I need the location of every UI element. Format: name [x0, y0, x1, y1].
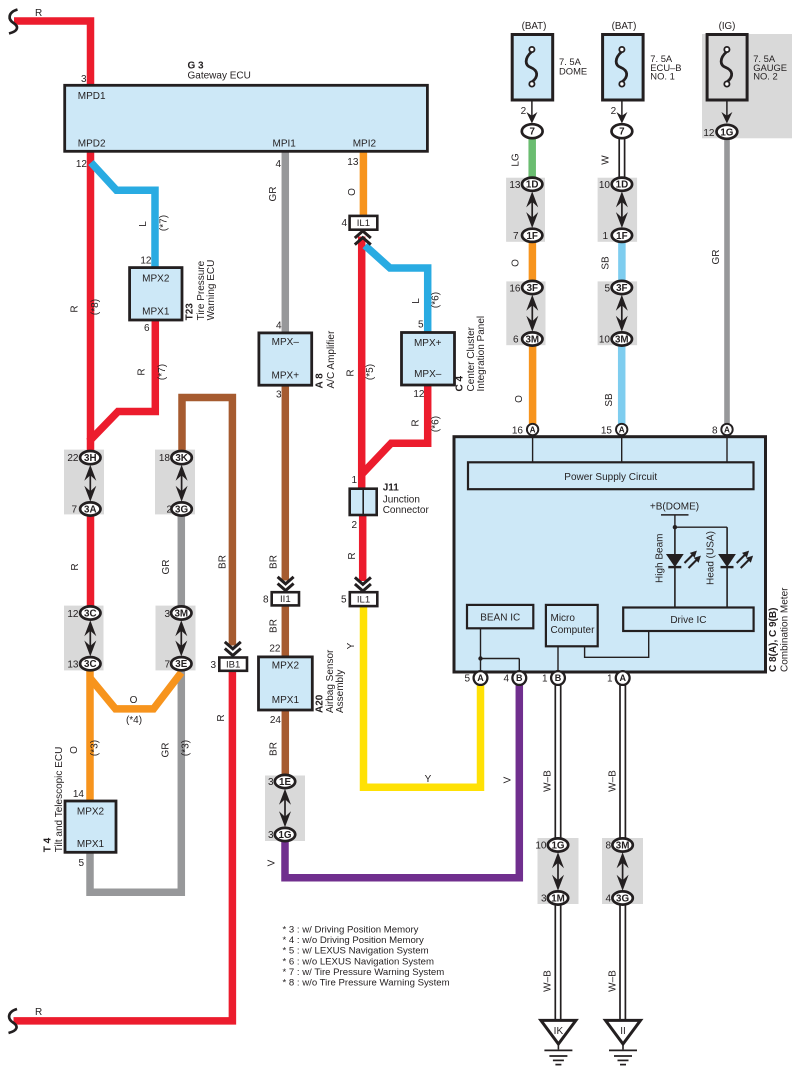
connector block shade 3K/3G	[155, 450, 195, 515]
svg-text:BR: BR	[269, 742, 280, 756]
svg-text:1F: 1F	[616, 231, 627, 242]
wire W-B from connector 3G to ground II	[619, 904, 621, 1021]
wire O (*4) branch between 3C line and 3E	[90, 673, 181, 709]
connector block shade 3M/3E	[156, 606, 196, 671]
Micro Computer block	[546, 605, 598, 646]
connector IB1 pin 3 with chevrons	[225, 642, 241, 656]
svg-text:SB: SB	[604, 393, 615, 407]
svg-text:BR: BR	[269, 555, 280, 569]
meter pin B4	[512, 671, 526, 685]
wire R from J11 pin 2 to IL1 connector	[359, 514, 367, 581]
fuse GAUGE lead, pin 12 and connector 1G	[726, 100, 728, 120]
wire BR from Airbag Sensor MPX1 pin 24 to connector 1E	[282, 710, 290, 783]
svg-text:BR: BR	[269, 619, 280, 633]
svg-text:8: 8	[605, 841, 611, 852]
svg-text:Drive IC: Drive IC	[670, 615, 706, 626]
meter pin A5	[474, 671, 488, 685]
Tilt and Telescopic ECU T4 box	[65, 801, 116, 852]
svg-text:W–B: W–B	[608, 970, 619, 992]
svg-text:1D: 1D	[526, 180, 539, 191]
svg-text:3: 3	[268, 777, 274, 788]
svg-text:A: A	[619, 426, 625, 435]
wire GR between 3G and 3M	[178, 508, 186, 614]
Drive IC block	[623, 608, 753, 632]
svg-text:(*3): (*3)	[90, 740, 101, 756]
svg-text:T23: T23	[185, 303, 196, 321]
meter pin B1	[551, 671, 565, 685]
wire V from connector 1G to Combination Meter pin B4	[285, 684, 519, 878]
svg-text:3M: 3M	[616, 841, 630, 852]
svg-text:7: 7	[164, 660, 170, 671]
meter internal lead from A15	[621, 438, 623, 462]
svg-text:13: 13	[509, 180, 521, 191]
svg-text:1: 1	[351, 475, 357, 486]
svg-text:SB: SB	[601, 256, 612, 270]
connector block shade 3M/3G	[602, 838, 643, 904]
svg-text:3M: 3M	[615, 335, 629, 346]
ground II	[606, 1020, 641, 1064]
svg-text:GR: GR	[161, 743, 172, 758]
wire W-B from meter pin A1 to connector 3M	[619, 684, 621, 839]
wire O from 3M to Combination Meter pin A16	[529, 338, 537, 425]
svg-text:Integration Panel: Integration Panel	[476, 316, 487, 392]
Tire Pressure Warning ECU T23 box	[130, 268, 182, 320]
meter pin A15	[616, 424, 627, 435]
svg-text:(*5): (*5)	[365, 364, 376, 380]
svg-text:MPD1: MPD1	[78, 91, 106, 102]
wire GR from MPI1 to A/C Amplifier MPX-	[282, 151, 290, 334]
wire break squiggle bottom left	[9, 1009, 18, 1033]
svg-text:Y: Y	[425, 774, 432, 785]
svg-text:3C: 3C	[84, 659, 97, 670]
svg-text:2: 2	[351, 520, 357, 531]
svg-text:5: 5	[418, 320, 424, 331]
svg-text:5: 5	[604, 284, 610, 295]
wire GR from fuse GAUGE connector 1G to Combination Meter pin A8	[724, 137, 730, 425]
svg-text:Warning ECU: Warning ECU	[206, 260, 217, 321]
connector pair 3M(3)/3E(7)	[175, 620, 187, 656]
svg-text:1E: 1E	[279, 777, 291, 788]
svg-text:2: 2	[611, 106, 617, 117]
Junction Connector J11	[350, 489, 377, 515]
svg-text:II1: II1	[280, 594, 291, 605]
svg-text:A: A	[724, 426, 730, 435]
connector IL1 pin 4 with chevrons	[350, 216, 378, 230]
svg-text:O: O	[69, 746, 80, 754]
wire W from fuse ECU-B connector 7 to 1D	[618, 137, 620, 185]
connector block shade 3F/3M (DOME circuit)	[506, 281, 545, 345]
wire LG from fuse DOME connector 7 to 1D	[528, 136, 536, 185]
wire R (*7) from T23 MPX1 merging into main R	[89, 319, 155, 442]
wire R from IB1 down and across to connector break at bottom left	[14, 670, 233, 1021]
connector block shade 1G/1M	[538, 838, 579, 904]
A/C Amplifier A8 box	[259, 333, 312, 385]
svg-text:* 8 : w/o Tire Pressure Warnin: * 8 : w/o Tire Pressure Warning System	[283, 978, 450, 989]
Combination Meter box C8(A) C9(B)	[454, 437, 766, 672]
wire GR (*3) from 3E down to Tilt and Telescopic ECU MPX1	[90, 664, 181, 892]
svg-text:R: R	[346, 369, 357, 376]
wire break squiggle top left	[9, 10, 18, 34]
svg-text:Tilt and Telescopic ECU: Tilt and Telescopic ECU	[54, 747, 65, 853]
svg-text:C 4: C 4	[455, 376, 466, 392]
svg-text:O: O	[511, 259, 522, 267]
connector pair 1D(13)/1F(7) DOME	[526, 191, 538, 228]
connector pair 1D(10)/1F(1) ECU-B	[616, 191, 628, 228]
svg-text:R: R	[35, 1007, 42, 1018]
Micro Computer lead to pin B1	[557, 646, 559, 671]
meter pin A8	[721, 424, 732, 435]
svg-text:3: 3	[210, 660, 216, 671]
svg-text:14: 14	[73, 789, 85, 800]
svg-text:R: R	[216, 714, 227, 721]
svg-text:8: 8	[712, 426, 718, 437]
svg-text:(*7): (*7)	[159, 215, 170, 231]
svg-text:(*4): (*4)	[126, 715, 142, 726]
svg-text:4: 4	[276, 321, 282, 332]
svg-text:MPX1: MPX1	[272, 695, 300, 706]
svg-text:II: II	[620, 1026, 626, 1037]
svg-text:A 8: A 8	[315, 373, 326, 389]
svg-text:A/C Amplifier: A/C Amplifier	[326, 330, 337, 388]
svg-text:4: 4	[503, 674, 509, 685]
svg-text:Gateway ECU: Gateway ECU	[188, 71, 251, 82]
meter internal lead from A16	[532, 438, 534, 462]
svg-text:12: 12	[703, 128, 715, 139]
connector pair 3F(16)/3M(6) DOME	[526, 295, 538, 332]
svg-text:7: 7	[71, 505, 77, 516]
svg-text:3F: 3F	[527, 283, 538, 294]
svg-text:Combination Meter: Combination Meter	[779, 587, 790, 672]
svg-text:3F: 3F	[616, 283, 627, 294]
ground IK	[541, 1020, 576, 1064]
svg-text:Assembly: Assembly	[335, 670, 346, 713]
connector pair 1G(10)/1M(3)	[552, 852, 564, 891]
svg-text:5: 5	[464, 674, 470, 685]
svg-text:NO. 2: NO. 2	[753, 71, 778, 82]
Head (USA) LED	[726, 527, 728, 554]
svg-text:* 5 : w/ LEXUS Navigation Syst: * 5 : w/ LEXUS Navigation System	[283, 946, 429, 957]
svg-text:MPX2: MPX2	[142, 273, 170, 284]
fuse 7.5A GAUGE NO.2	[707, 35, 747, 101]
connector pair 3F(5)/3M(10) ECU-B	[616, 295, 628, 332]
svg-text:1G: 1G	[551, 841, 564, 852]
Power Supply Circuit block	[468, 462, 754, 489]
svg-text:(*8): (*8)	[90, 299, 101, 315]
svg-text:A: A	[530, 426, 536, 435]
svg-text:O: O	[514, 395, 525, 403]
connector block shade 3H/3A	[64, 450, 104, 515]
connector IL1 pin 5 with chevrons	[355, 577, 371, 591]
svg-text:3G: 3G	[616, 894, 629, 905]
wire L (*6) branch to Center Cluster Integration Panel MPX+	[365, 246, 428, 334]
svg-text:R: R	[411, 419, 422, 426]
shaded option panel around GAUGE NO.2 fuse	[702, 34, 792, 138]
svg-text:+B(DOME): +B(DOME)	[650, 502, 699, 513]
svg-text:MPI2: MPI2	[353, 139, 377, 150]
svg-text:22: 22	[67, 453, 79, 464]
svg-text:High Beam: High Beam	[655, 534, 666, 583]
wire SB from 3M to Combination Meter pin A15	[618, 338, 626, 425]
svg-text:J11: J11	[383, 483, 400, 494]
svg-text:MPI1: MPI1	[273, 139, 297, 150]
svg-text:(*3): (*3)	[181, 740, 192, 756]
svg-text:3: 3	[541, 894, 547, 905]
wire L (*7) branch to Tire Pressure Warning ECU	[91, 163, 155, 269]
svg-text:3A: 3A	[84, 505, 97, 516]
svg-text:10: 10	[535, 841, 547, 852]
svg-text:Connector: Connector	[383, 505, 430, 516]
svg-text:R: R	[70, 563, 81, 570]
meter pin A1	[616, 671, 630, 685]
svg-text:MPX+: MPX+	[272, 370, 300, 381]
svg-text:Y: Y	[346, 642, 357, 649]
wire W-B from meter pin B1 to connector 1G	[554, 684, 556, 839]
svg-text:IL1: IL1	[357, 218, 370, 229]
fuse ECU-B lead, pin 2 and connector 7	[621, 100, 623, 120]
svg-text:3M: 3M	[174, 609, 188, 620]
svg-text:O: O	[347, 188, 358, 196]
wire Y from IL1 to Combination Meter pin A5	[364, 605, 481, 787]
svg-text:3H: 3H	[84, 453, 97, 464]
svg-text:1F: 1F	[526, 231, 537, 242]
svg-text:2: 2	[521, 106, 527, 117]
svg-text:1G: 1G	[720, 127, 733, 138]
svg-text:10: 10	[599, 180, 611, 191]
connector block shade 1D/1F (DOME circuit)	[506, 178, 545, 242]
svg-text:GR: GR	[268, 187, 279, 202]
svg-text:IL1: IL1	[357, 594, 370, 605]
connector block shade 1E/1G	[265, 776, 305, 842]
svg-text:4: 4	[605, 894, 611, 905]
svg-text:12: 12	[67, 609, 79, 620]
svg-text:* 3 : w/ Driving Position Memo: * 3 : w/ Driving Position Memory	[283, 925, 419, 936]
svg-text:7: 7	[529, 127, 535, 138]
svg-text:MPX+: MPX+	[414, 338, 442, 349]
fuse 7.5A ECU-B NO.1	[603, 35, 644, 101]
wire O from MPI2 to connector IL1	[360, 151, 368, 217]
svg-text:22: 22	[269, 644, 281, 655]
wire O between 1F and 3F (DOME circuit)	[529, 234, 537, 288]
Airbag Sensor Assembly A20 box	[259, 657, 313, 710]
svg-text:1: 1	[602, 231, 608, 242]
wire BR from II1 to Airbag Sensor MPX2 pin 22	[282, 605, 290, 658]
connector pair 1E(3)/1G(3)	[279, 789, 291, 828]
svg-text:6: 6	[144, 323, 150, 334]
svg-text:C 8(A), C 9(B): C 8(A), C 9(B)	[768, 608, 779, 672]
svg-text:1M: 1M	[551, 894, 565, 905]
svg-text:(*6): (*6)	[431, 292, 442, 308]
svg-text:8: 8	[263, 595, 269, 606]
svg-text:* 6 : w/o LEXUS Navigation Sys: * 6 : w/o LEXUS Navigation System	[283, 956, 434, 967]
svg-text:3K: 3K	[175, 453, 188, 464]
svg-text:16: 16	[509, 284, 521, 295]
wire R (*5) from IL1 to Junction Connector J11 pin 1	[358, 237, 366, 490]
svg-text:GR: GR	[711, 250, 722, 265]
svg-text:12: 12	[76, 159, 88, 170]
svg-text:BR: BR	[218, 555, 229, 569]
svg-text:B: B	[555, 673, 562, 683]
svg-text:LG: LG	[511, 153, 522, 167]
svg-text:IB1: IB1	[226, 659, 240, 670]
svg-text:6: 6	[513, 335, 519, 346]
svg-text:5: 5	[78, 858, 84, 869]
svg-text:Head (USA): Head (USA)	[706, 531, 717, 585]
svg-text:15: 15	[601, 426, 613, 437]
svg-text:L: L	[138, 221, 149, 227]
svg-text:W–B: W–B	[608, 770, 619, 792]
connector pair 3C(12)/3C(13)	[84, 620, 96, 656]
svg-text:W: W	[601, 155, 612, 165]
svg-text:* 4 : w/o Driving Position Mem: * 4 : w/o Driving Position Memory	[283, 935, 424, 946]
svg-text:MPD2: MPD2	[78, 139, 106, 150]
svg-text:MPX–: MPX–	[272, 337, 300, 348]
wire R between 3A and 3C	[87, 508, 95, 614]
svg-text:(BAT): (BAT)	[522, 21, 547, 32]
svg-text:A: A	[477, 673, 484, 683]
svg-text:* 7 : w/ Tire Pressure Warning: * 7 : w/ Tire Pressure Warning System	[283, 967, 445, 978]
svg-text:T 4: T 4	[43, 837, 54, 852]
svg-text:3M: 3M	[525, 335, 539, 346]
svg-text:3: 3	[81, 74, 87, 85]
svg-text:3C: 3C	[84, 609, 97, 620]
Center Cluster Integration Panel C4 box	[402, 333, 455, 386]
svg-text:NO. 1: NO. 1	[650, 71, 675, 82]
svg-text:13: 13	[347, 157, 359, 168]
svg-text:Junction: Junction	[383, 495, 420, 506]
fuse DOME lead, pin 2 and connector 7	[531, 100, 533, 120]
wire O (*3) from connector 3C to Tilt and Telescopic ECU MPX2	[86, 663, 94, 802]
svg-text:Power Supply Circuit: Power Supply Circuit	[564, 472, 657, 483]
svg-text:2: 2	[166, 505, 172, 516]
svg-text:4: 4	[341, 218, 347, 229]
svg-text:5: 5	[341, 595, 347, 606]
wire W-B from connector 1M to ground IK	[554, 904, 556, 1021]
svg-text:1G: 1G	[278, 830, 291, 841]
svg-text:3G: 3G	[175, 505, 188, 516]
svg-text:(*6): (*6)	[431, 416, 442, 432]
svg-text:24: 24	[270, 715, 282, 726]
svg-text:1: 1	[607, 674, 613, 685]
connector block shade 3C/3C	[64, 606, 104, 671]
svg-text:R: R	[137, 368, 148, 375]
svg-text:MPX2: MPX2	[272, 660, 300, 671]
svg-text:L: L	[411, 298, 422, 304]
svg-text:V: V	[267, 859, 278, 866]
High Beam LED	[674, 527, 676, 554]
svg-text:V: V	[503, 776, 514, 783]
svg-text:4: 4	[275, 159, 281, 170]
svg-text:W–B: W–B	[543, 970, 554, 992]
svg-text:7: 7	[513, 231, 519, 242]
wire R from connector break to Gateway ECU pin 3	[14, 21, 91, 86]
svg-text:12: 12	[413, 389, 425, 400]
svg-text:3E: 3E	[175, 659, 187, 670]
svg-text:GR: GR	[161, 560, 172, 575]
svg-text:12: 12	[140, 256, 152, 267]
svg-text:MPX–: MPX–	[414, 369, 442, 380]
svg-text:7: 7	[619, 127, 625, 138]
svg-text:(BAT): (BAT)	[612, 21, 637, 32]
svg-text:B: B	[516, 673, 523, 683]
svg-text:A: A	[619, 673, 626, 683]
svg-text:W–B: W–B	[543, 770, 554, 792]
svg-text:MPX2: MPX2	[77, 807, 105, 818]
svg-text:MPX1: MPX1	[77, 839, 105, 850]
svg-text:3: 3	[164, 609, 170, 620]
svg-text:IK: IK	[554, 1026, 564, 1037]
BEAN IC block	[467, 605, 533, 628]
fuse 7.5A DOME	[512, 35, 553, 101]
svg-text:Micro: Micro	[551, 613, 576, 624]
svg-text:18: 18	[159, 453, 171, 464]
wire R (*6) from C4 MPX- merging above J11	[363, 384, 428, 474]
BEAN IC lead to pins A5/B4 with junction dot	[480, 628, 482, 671]
connector pair 3M(8)/3G(4)	[617, 852, 629, 891]
connector block shade 3F/3M (ECU-B circuit)	[598, 281, 638, 345]
wire BR loop from connector 3K up over to IB1	[182, 398, 232, 646]
svg-text:1D: 1D	[616, 180, 629, 191]
wire BR from A/C Amplifier MPX+ down to II1	[282, 385, 290, 581]
wire R Gateway ECU MPD2 pin 12 down to connector 3C	[87, 151, 95, 458]
svg-text:R: R	[70, 305, 81, 312]
connector pair 3H(22)/3A(7)	[84, 465, 96, 502]
Micro Computer lead to Drive IC	[585, 631, 649, 657]
svg-text:O: O	[130, 695, 138, 706]
svg-text:1: 1	[542, 674, 548, 685]
svg-text:3: 3	[268, 830, 274, 841]
wire SB between 1F and 3F (ECU-B circuit)	[618, 234, 626, 288]
connector pair 3K(18)/3G(2)	[176, 465, 188, 502]
svg-text:BEAN IC: BEAN IC	[480, 613, 520, 624]
connector block shade 1D/1F (ECU-B circuit)	[598, 178, 638, 242]
svg-text:(*7): (*7)	[157, 364, 168, 380]
svg-text:16: 16	[512, 426, 524, 437]
meter internal lead from A8	[726, 438, 728, 462]
Gateway ECU G3 box	[65, 85, 428, 151]
connector II1 pin 8 with chevrons	[278, 577, 294, 591]
svg-text:R: R	[347, 552, 358, 559]
meter pin A16	[527, 424, 538, 435]
svg-text:(IG): (IG)	[719, 21, 736, 32]
svg-text:DOME: DOME	[559, 66, 587, 77]
svg-text:10: 10	[599, 335, 611, 346]
svg-text:R: R	[35, 8, 42, 19]
svg-text:13: 13	[67, 660, 79, 671]
svg-text:MPX1: MPX1	[142, 307, 170, 318]
svg-text:3: 3	[276, 390, 282, 401]
svg-text:Computer: Computer	[551, 625, 596, 636]
